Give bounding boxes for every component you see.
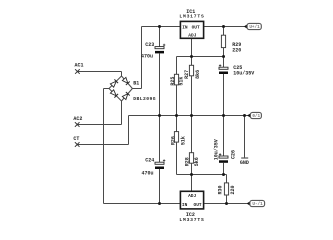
svg-text:ADJ: ADJ: [188, 32, 196, 38]
svg-text:AC2: AC2: [73, 116, 82, 122]
svg-text:CT: CT: [73, 136, 79, 142]
svg-text:470u: 470u: [141, 53, 153, 59]
svg-text:R26: R26: [171, 136, 177, 145]
svg-text:LM317TS: LM317TS: [179, 13, 204, 19]
svg-text:U+/1: U+/1: [249, 25, 260, 30]
svg-text:R30: R30: [217, 185, 223, 194]
svg-text:IN: IN: [182, 25, 188, 31]
svg-text:C24: C24: [145, 158, 154, 164]
svg-text:B1: B1: [133, 80, 139, 86]
svg-text:0/1: 0/1: [252, 114, 260, 119]
svg-text:C23: C23: [145, 42, 154, 48]
svg-text:GND: GND: [240, 160, 249, 166]
svg-text:ADJ: ADJ: [188, 193, 196, 199]
svg-text:10u/35V: 10u/35V: [214, 139, 220, 160]
svg-text:C26: C26: [230, 150, 236, 159]
svg-text:R28: R28: [185, 157, 191, 166]
svg-text:R27: R27: [184, 70, 190, 79]
svg-text:470u: 470u: [142, 170, 154, 176]
svg-text:R25: R25: [170, 77, 176, 86]
svg-text:OUT: OUT: [194, 202, 202, 208]
svg-text:U-/1: U-/1: [252, 202, 263, 207]
svg-text:DBL209G: DBL209G: [133, 96, 156, 102]
svg-text:220: 220: [230, 185, 236, 194]
svg-text:8k6: 8k6: [195, 70, 201, 79]
svg-text:IN: IN: [182, 202, 188, 208]
svg-text:LM337TS: LM337TS: [179, 217, 204, 223]
svg-text:OUT: OUT: [192, 25, 200, 31]
svg-text:220: 220: [232, 47, 241, 53]
svg-text:5k6: 5k6: [194, 157, 200, 166]
svg-text:10u/35V: 10u/35V: [233, 71, 254, 77]
svg-text:AC1: AC1: [75, 62, 84, 68]
svg-text:51k: 51k: [181, 136, 187, 145]
